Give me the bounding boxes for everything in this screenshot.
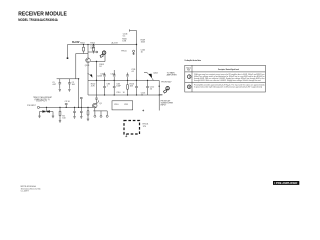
svg-text:.047: .047	[52, 84, 56, 86]
wire H4 drop at left	[87, 80, 89, 95]
svg-text:10: 10	[123, 92, 125, 94]
wire Q102 lead	[144, 73, 154, 81]
ground below R4	[87, 119, 89, 121]
svg-text:100P: 100P	[90, 48, 95, 50]
svg-text:R102: R102	[90, 42, 95, 44]
wire V4	[104, 54, 106, 62]
wire H4	[88, 79, 159, 81]
node open terminal	[96, 51, 98, 53]
wire left drop V1	[67, 45, 69, 58]
svg-text:C3 10: C3 10	[65, 101, 70, 103]
svg-text:Q102: Q102	[153, 72, 158, 74]
wire B+ rail H1	[68, 44, 137, 46]
resistor R101	[83, 45, 85, 54]
node junctions on H4	[96, 80, 148, 81]
node junctions on H6	[46, 107, 89, 108]
svg-text:12V: 12V	[143, 126, 147, 128]
node junctions on H5	[104, 94, 160, 95]
capacitor C6 stub	[80, 97, 83, 107]
node junctions on V6	[159, 86, 160, 87]
svg-text:OUTPUT: OUTPUT	[36, 101, 47, 103]
wire Q1 emitter hook	[96, 100, 98, 104]
capacitor C107	[135, 80, 138, 95]
svg-text:100P: 100P	[116, 86, 121, 88]
note box table	[185, 65, 266, 92]
svg-text:INPUT: INPUT	[161, 104, 168, 106]
capacitor C83	[103, 80, 106, 95]
svg-text:100: 100	[62, 117, 65, 119]
ground below C5	[80, 117, 82, 119]
node terminal at V1 end	[67, 57, 69, 59]
svg-text:10: 10	[141, 95, 143, 97]
wire V3a	[75, 54, 77, 79]
svg-text:B+15V: B+15V	[72, 42, 80, 44]
pin 3	[106, 111, 108, 115]
node junction Q101 top	[87, 44, 88, 45]
node plus mark	[142, 110, 144, 112]
resistor R113	[127, 80, 129, 95]
note row 1 text	[194, 73, 265, 82]
svg-text:CL-05/97: CL-05/97	[21, 191, 29, 193]
node junction R102 top	[93, 44, 94, 45]
ground below C1	[59, 89, 61, 91]
diode CR1	[40, 107, 54, 111]
wire V6 tick	[159, 94, 162, 96]
wire V6	[158, 80, 160, 110]
svg-text:150K: 150K	[141, 41, 146, 43]
svg-text:0.1: 0.1	[123, 36, 126, 38]
capacitor C109	[113, 70, 116, 80]
ground below CR2	[52, 112, 54, 118]
svg-text:100: 100	[72, 84, 75, 86]
note row 2 text	[194, 84, 265, 89]
svg-text:P/U INPUT: P/U INPUT	[27, 105, 36, 107]
svg-text:AMPLIFIER: AMPLIFIER	[167, 74, 178, 77]
svg-text:4.7K: 4.7K	[91, 86, 96, 88]
svg-text:Q103: Q103	[97, 75, 102, 77]
capacitor C1	[59, 79, 62, 89]
diode CR2	[47, 110, 49, 112]
svg-text:C109: C109	[110, 73, 115, 75]
capacitor C108	[146, 80, 149, 95]
pin 1	[94, 111, 96, 115]
node junction H1/V2	[136, 44, 137, 45]
ground below C4	[73, 117, 75, 119]
node junction R101 top	[83, 44, 84, 45]
test point TP101	[133, 50, 135, 52]
svg-text:IC (pass lock) under eight mid: IC (pass lock) under eight midrange poin…	[194, 86, 262, 89]
wire top stub of V2	[130, 29, 137, 31]
svg-text:3.3K: 3.3K	[122, 40, 127, 42]
capacitor C2	[68, 79, 71, 89]
ground below C2	[68, 89, 70, 91]
resistor R102	[93, 45, 95, 54]
svg-text:Ref: Ref	[187, 69, 191, 71]
svg-text:Pre-Amplifier Service Notes: Pre-Amplifier Service Notes	[185, 59, 202, 62]
svg-text:TP101: TP101	[121, 51, 127, 53]
transistor Q101	[86, 58, 91, 63]
svg-text:Description / Nominal Signal L: Description / Nominal Signal Levels	[218, 68, 239, 71]
wire shield stub	[125, 134, 127, 137]
note ref bubble 1	[187, 75, 191, 79]
svg-text:RECEIVER MODULE: RECEIVER MODULE	[18, 11, 67, 17]
wire C1/C2 bus	[57, 78, 79, 80]
svg-text:C111: C111	[124, 104, 128, 106]
capacitor C5	[80, 107, 83, 116]
svg-text:1: 1	[107, 86, 108, 88]
note ref bubble 2	[187, 85, 191, 89]
transistor Q103 blob	[90, 74, 93, 77]
transistor Q1	[93, 103, 97, 107]
svg-text:A+15V: A+15V	[112, 41, 119, 44]
svg-text:1K: 1K	[99, 66, 102, 68]
node junction V3a/V3b	[78, 78, 79, 79]
svg-text:10: 10	[150, 88, 152, 90]
svg-text:FRONT A/V: FRONT A/V	[161, 80, 172, 83]
svg-text:10: 10	[141, 51, 143, 53]
footer black label PRE AMPLIFIER	[273, 181, 299, 185]
resistor R4	[87, 107, 89, 118]
capacitor C106	[103, 73, 106, 81]
wire Q101 collector from rail	[87, 45, 89, 59]
svg-text:.01: .01	[131, 71, 134, 73]
svg-text:Q1: Q1	[99, 103, 102, 105]
wire connector bus	[93, 108, 107, 111]
capacitor C4	[73, 107, 76, 116]
wire stub to open terminal	[88, 51, 96, 53]
node input terminal	[37, 106, 39, 108]
svg-text:through 600R. With vco collect: through 600R. With vco collector 0.4000R…	[194, 79, 261, 82]
capacitor C3	[65, 103, 68, 107]
svg-text:R101: R101	[80, 42, 85, 44]
wire Q101 lower lead	[87, 63, 89, 81]
wire H3 emitter	[90, 61, 105, 63]
svg-text:MODEL TRX4044A/CRX4004A: MODEL TRX4044A/CRX4004A	[18, 18, 58, 22]
svg-text:C110: C110	[116, 92, 120, 94]
ref bubble 2	[100, 51, 106, 58]
ground below CR1	[38, 112, 40, 118]
node junction H3/V5	[96, 61, 97, 62]
wire H5	[88, 94, 162, 96]
shield box dashed	[124, 121, 140, 135]
svg-text:C110: C110	[114, 104, 118, 106]
wire bus V2	[136, 31, 138, 81]
wire H2 base bus	[76, 53, 88, 55]
resistor R2	[59, 107, 61, 120]
footer doc number	[21, 185, 41, 193]
wire V3b	[78, 79, 80, 108]
capacitor C111	[126, 73, 129, 81]
svg-text:Q101: Q101	[85, 65, 90, 67]
svg-text:PRE AMPLIFIER: PRE AMPLIFIER	[276, 182, 298, 185]
svg-text:10K: 10K	[130, 86, 134, 88]
svg-text:C106: C106	[100, 73, 105, 75]
transistor Q102 blob	[148, 74, 152, 79]
svg-text:RY101: RY101	[143, 123, 149, 125]
wire V5	[95, 62, 98, 104]
capacitor C84	[113, 80, 116, 95]
ground below R2	[59, 121, 61, 123]
pin 2	[100, 111, 102, 115]
wire H6 input line	[40, 106, 94, 108]
ref bubble 3	[164, 86, 170, 93]
relay box K1	[112, 101, 133, 110]
